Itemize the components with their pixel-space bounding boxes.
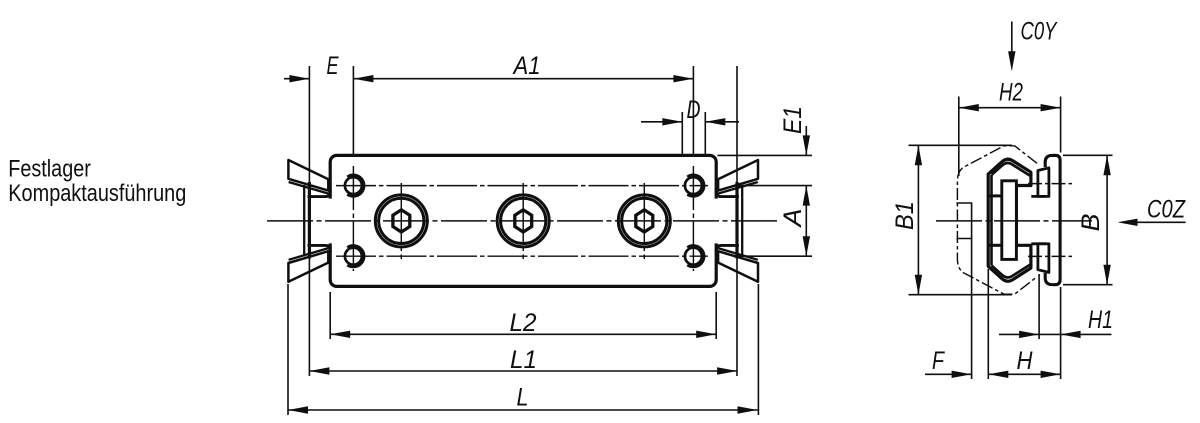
svg-text:D: D [687, 96, 701, 124]
svg-text:A: A [779, 209, 807, 229]
svg-text:Festlager: Festlager [8, 156, 91, 183]
svg-text:E1: E1 [779, 106, 807, 134]
svg-text:B: B [1077, 214, 1105, 232]
svg-text:Kompaktausführung: Kompaktausführung [8, 180, 186, 207]
svg-text:C0Y: C0Y [1021, 18, 1059, 46]
svg-text:C0Z: C0Z [1147, 196, 1186, 224]
svg-text:L1: L1 [510, 346, 537, 374]
svg-text:H1: H1 [1088, 306, 1113, 334]
svg-text:H: H [1017, 347, 1034, 375]
svg-text:B1: B1 [891, 201, 919, 230]
svg-text:L2: L2 [510, 309, 537, 337]
svg-text:F: F [932, 347, 945, 375]
svg-text:L: L [517, 384, 529, 412]
svg-text:E: E [327, 52, 339, 80]
svg-text:H2: H2 [999, 78, 1023, 106]
svg-text:A1: A1 [512, 52, 541, 80]
